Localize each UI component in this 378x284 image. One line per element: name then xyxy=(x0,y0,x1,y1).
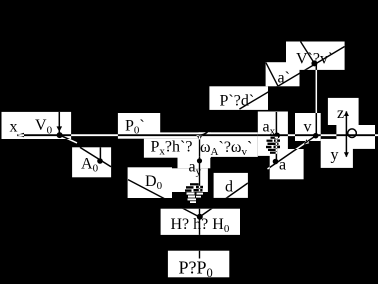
svg-text:z: z xyxy=(337,105,344,122)
svg-text:x: x xyxy=(10,118,18,135)
svg-text:y: y xyxy=(331,147,339,164)
svg-text:P`?d`: P`?d` xyxy=(220,93,255,110)
svg-text:a: a xyxy=(279,157,286,174)
svg-text:H? h? H0: H? h? H0 xyxy=(171,216,230,235)
svg-text:Px?h`?: Px?h`? xyxy=(151,139,193,158)
svg-text:V`?v`: V`?v` xyxy=(296,51,333,68)
svg-text:v: v xyxy=(304,119,312,136)
svg-text:a`: a` xyxy=(278,70,290,87)
svg-text:d: d xyxy=(225,178,233,195)
